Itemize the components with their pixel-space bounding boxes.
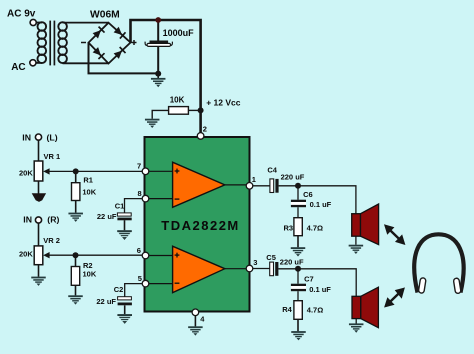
svg-text:AC: AC (11, 62, 25, 73)
svg-text:1: 1 (252, 175, 256, 184)
svg-text:7: 7 (137, 162, 141, 171)
svg-text:20K: 20K (19, 168, 33, 177)
svg-text:+ 12 Vcc: + 12 Vcc (206, 98, 241, 108)
svg-text:W06M: W06M (90, 10, 120, 21)
svg-text:IN: IN (22, 133, 31, 143)
svg-text:C4: C4 (267, 165, 277, 174)
svg-text:4.7Ω: 4.7Ω (307, 306, 323, 315)
svg-text:TDA2822M: TDA2822M (161, 218, 239, 233)
svg-text:R1: R1 (83, 176, 93, 185)
svg-text:1000uF: 1000uF (163, 28, 195, 38)
svg-text:5: 5 (138, 274, 142, 283)
svg-text:0.1 uF: 0.1 uF (310, 200, 332, 209)
svg-text:C1: C1 (115, 202, 125, 211)
svg-text:22 uF: 22 uF (97, 212, 117, 221)
svg-text:(R): (R) (47, 214, 59, 224)
svg-text:R4: R4 (282, 305, 292, 314)
svg-text:AC 9v: AC 9v (7, 9, 36, 20)
svg-text:VR 1: VR 1 (44, 152, 61, 161)
svg-text:0.1 uF: 0.1 uF (309, 285, 331, 294)
svg-text:220 uF: 220 uF (280, 258, 304, 267)
svg-text:220 uF: 220 uF (281, 172, 305, 181)
svg-text:C7: C7 (304, 275, 314, 284)
svg-text:C6: C6 (303, 190, 313, 199)
svg-text:C5: C5 (266, 253, 276, 262)
svg-text:10K: 10K (82, 188, 96, 197)
svg-text:VR 2: VR 2 (43, 236, 60, 245)
svg-text:10K: 10K (170, 95, 185, 104)
svg-text:C2: C2 (114, 285, 124, 294)
svg-text:3: 3 (253, 258, 257, 267)
svg-text:4.7Ω: 4.7Ω (307, 224, 323, 233)
svg-text:10K: 10K (83, 270, 97, 279)
svg-text:R3: R3 (284, 224, 294, 233)
svg-text:20K: 20K (19, 249, 33, 258)
svg-text:2: 2 (203, 124, 207, 133)
svg-text:(L): (L) (47, 133, 58, 143)
svg-text:IN: IN (23, 214, 32, 224)
svg-text:6: 6 (137, 246, 141, 255)
svg-text:8: 8 (138, 189, 142, 198)
svg-text:22 uF: 22 uF (96, 297, 116, 306)
